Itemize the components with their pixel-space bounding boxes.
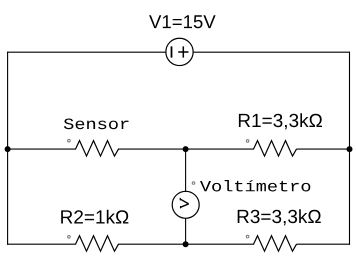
label Voltimetro	[200, 180, 310, 192]
node C: bottom wire / voltmeter junction	[183, 241, 189, 247]
resistor R3	[254, 236, 297, 252]
wire bottom right (R3 to right rail)	[297, 243, 350, 245]
wire bottom left (to R2)	[8, 243, 76, 245]
wire bottom node C to R3	[186, 243, 254, 245]
pin marker R2 pin 1	[68, 236, 71, 239]
node A: left rail / middle wire junction	[5, 146, 11, 152]
wire top right (from V1)	[193, 51, 349, 53]
wire right vertical	[349, 52, 351, 244]
voltmeter U1	[172, 191, 199, 218]
label Sensor	[64, 119, 129, 130]
voltage source V1	[166, 38, 193, 65]
label R3=3,3kOhm	[238, 209, 321, 225]
pin marker voltmeter pin 1	[192, 182, 195, 185]
label V1=15V	[149, 15, 216, 28]
wire middle node B to R1	[186, 148, 254, 150]
node D: right rail / middle wire junction	[347, 146, 353, 152]
wire voltmeter bottom lead	[185, 219, 187, 245]
pin marker R3 pin 1	[246, 235, 249, 238]
resistor R2	[76, 236, 119, 252]
wire voltmeter top lead	[185, 149, 187, 191]
node B: middle wire / voltmeter junction	[183, 146, 189, 152]
wire left vertical	[7, 52, 9, 244]
wire middle center (Sensor to node B)	[119, 148, 186, 150]
resistor Sensor	[76, 141, 119, 157]
resistor R1	[254, 141, 297, 157]
label R1=3,3kOhm	[239, 113, 322, 129]
wire top left (to V1)	[8, 51, 166, 53]
pin marker R1 pin 1	[246, 140, 249, 143]
pin marker Sensor pin 1	[68, 139, 71, 142]
wire middle right (R1 to right rail)	[297, 148, 350, 150]
wire bottom center (R2 to node C)	[119, 243, 186, 245]
wire middle left (to Sensor)	[8, 148, 76, 150]
label R2=1kOhm	[61, 210, 128, 224]
